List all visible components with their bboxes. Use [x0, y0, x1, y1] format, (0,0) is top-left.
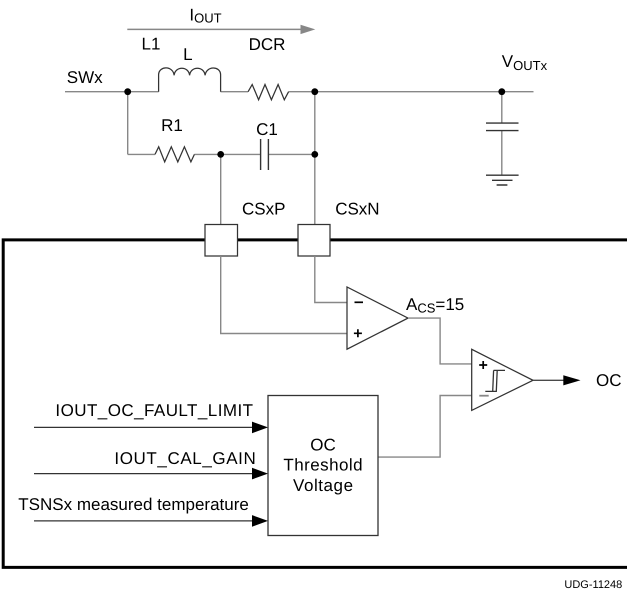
svg-text:CSxN: CSxN: [335, 200, 379, 219]
block OC Threshold Voltage: [268, 396, 378, 536]
svg-text:ACS=15: ACS=15: [406, 295, 464, 316]
svg-text:UDG-11248: UDG-11248: [564, 579, 622, 591]
node B junction dot: [311, 88, 318, 95]
capacitor C1: [261, 139, 269, 170]
inductor L: [159, 68, 221, 92]
wire CSxN pin to op-amp inverting input: [315, 256, 347, 303]
resistor DCR: [248, 85, 289, 100]
wire op-amp output to comparator plus input: [408, 318, 472, 364]
wire/arrow IOUT_CAL_GAIN input: [34, 473, 253, 475]
svg-text:CSxP: CSxP: [242, 200, 285, 219]
arrow IOUT current direction: [127, 28, 301, 30]
svg-text:OC: OC: [596, 371, 622, 390]
wire SWx to node A: [65, 91, 159, 93]
node D junction dot: [217, 151, 224, 158]
wire node A down to node C: [127, 92, 129, 155]
svg-text:L1: L1: [142, 34, 161, 53]
svg-text:OC: OC: [310, 436, 336, 455]
pin CSxN: [298, 225, 330, 257]
wire R1 to C1: [194, 153, 260, 155]
wire CSxP pin to op-amp noninverting input: [221, 256, 347, 334]
svg-text:DCR: DCR: [249, 35, 286, 54]
svg-text:L: L: [183, 45, 192, 64]
svg-text:R1: R1: [161, 116, 183, 135]
svg-text:C1: C1: [256, 120, 278, 139]
wire inductor to DCR: [221, 91, 249, 93]
op-amp U1 current-sense amplifier: [347, 287, 408, 349]
comparator hysteresis symbol: [485, 370, 505, 391]
op-amp U1 plus sign: [354, 329, 362, 337]
op-amp U1 minus sign: [355, 301, 364, 303]
wire/arrow TSNSx input: [34, 520, 253, 522]
capacitor COUT: [486, 123, 519, 131]
wire/arrow IOUT_OC_FAULT_LIMIT input: [34, 426, 253, 428]
wire comparator output: [533, 379, 564, 381]
arrow OC output: [563, 375, 580, 385]
svg-text:IOUT_OC_FAULT_LIMIT: IOUT_OC_FAULT_LIMIT: [55, 401, 253, 420]
wire node C to R1: [128, 153, 155, 155]
node VOUTx junction dot: [498, 88, 505, 95]
comparator minus sign: [479, 395, 488, 397]
comparator U2 with hysteresis: [472, 349, 533, 410]
wire node B down to CSxN pin: [314, 92, 316, 225]
comparator plus sign: [479, 361, 487, 369]
resistor R1: [155, 147, 194, 162]
node A junction dot: [124, 88, 131, 95]
svg-text:Threshold: Threshold: [283, 456, 363, 475]
wire DCR to VOUTx: [289, 91, 534, 93]
svg-text:TSNSx measured temperature: TSNSx measured temperature: [18, 495, 249, 514]
svg-text:SWx: SWx: [67, 68, 103, 87]
wire node D down to CSxP pin: [220, 154, 222, 224]
wire OC threshold box to comparator minus input: [379, 396, 472, 458]
IC boundary box (open right side): [3, 240, 627, 568]
svg-text:IOUT_CAL_GAIN: IOUT_CAL_GAIN: [114, 449, 256, 468]
pin CSxP: [205, 225, 238, 257]
wire C1 to node B: [268, 153, 314, 155]
ground: [486, 175, 519, 185]
svg-text:Voltage: Voltage: [293, 476, 354, 495]
node E junction dot: [311, 151, 318, 158]
wire VOUTx node to output capacitor: [501, 92, 503, 175]
